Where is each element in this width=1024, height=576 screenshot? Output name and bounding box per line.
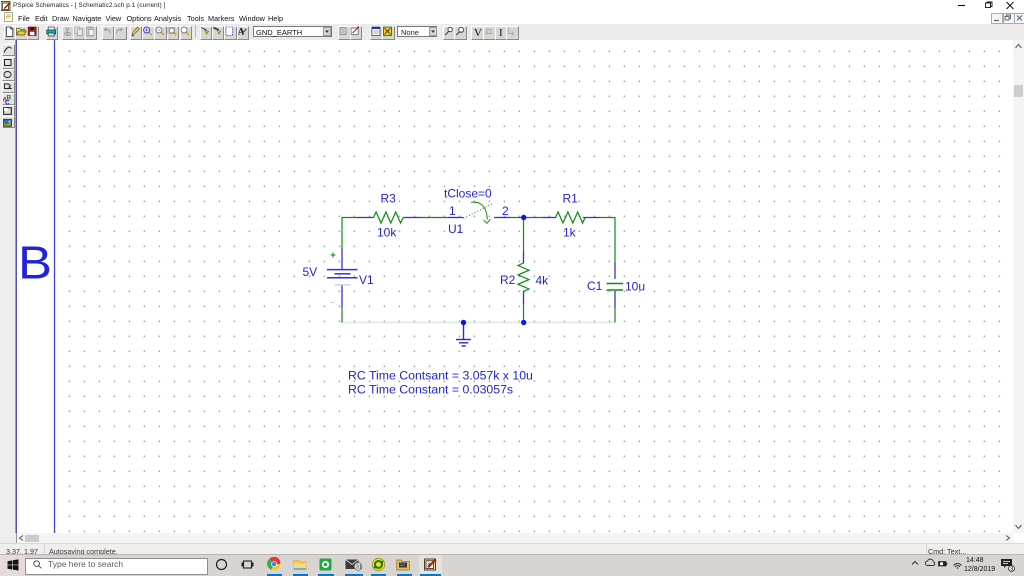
svg-text:31: 31 [356, 565, 362, 571]
svg-text:U1: U1 [448, 222, 464, 236]
svg-text:2: 2 [502, 204, 509, 218]
svg-text:R1: R1 [563, 192, 579, 206]
svg-text:R3: R3 [381, 192, 397, 206]
svg-text:RC Time Constant = 0.03057s: RC Time Constant = 0.03057s [348, 383, 513, 397]
svg-text:tClose=0: tClose=0 [444, 187, 492, 201]
svg-text:RC Time Contsant = 3.057k x 10: RC Time Contsant = 3.057k x 10u [348, 369, 533, 383]
svg-text:3: 3 [1010, 567, 1013, 573]
svg-text:V1: V1 [359, 273, 374, 287]
svg-text:10u: 10u [625, 280, 645, 294]
svg-text:1: 1 [449, 204, 456, 218]
svg-text:C1: C1 [587, 279, 603, 293]
svg-text:B: B [18, 237, 52, 289]
svg-text:1k: 1k [563, 226, 577, 240]
svg-text:5V: 5V [303, 265, 318, 279]
svg-text:10k: 10k [377, 226, 397, 240]
svg-text:4k: 4k [536, 274, 550, 288]
svg-text:R2: R2 [500, 273, 516, 287]
